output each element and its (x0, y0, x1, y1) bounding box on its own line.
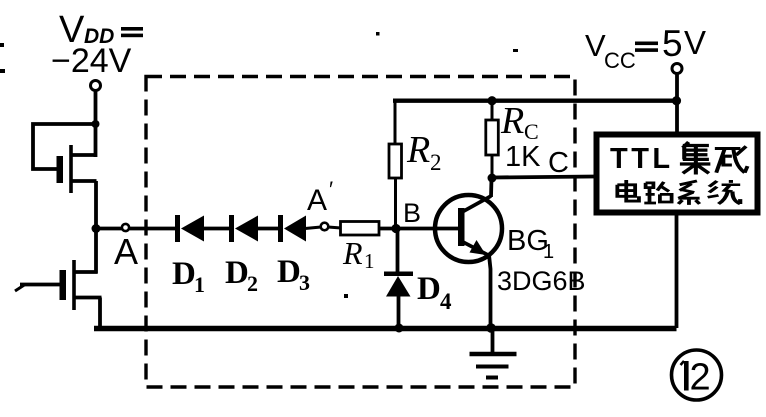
transistor BG1 (435, 195, 502, 262)
scan speck left edge upper (0, 43, 4, 47)
wire BG1 collector to node C (489, 178, 493, 197)
diode D2 (229, 215, 258, 242)
diode D3 (278, 215, 306, 242)
node A marker circle (122, 224, 129, 231)
label VDD = -24V (51, 9, 143, 80)
svg-text:B: B (403, 198, 421, 228)
svg-text:A: A (307, 184, 327, 217)
label D1 (172, 256, 205, 297)
glyph 成 (715, 146, 748, 172)
top rail wire VCC (393, 99, 677, 103)
junction D4 - bottom rail (395, 324, 404, 333)
resistor R1 (341, 222, 380, 236)
wire M1 source to node A (94, 181, 98, 230)
node C junction (488, 174, 497, 183)
wire node B to BG1 base (396, 227, 459, 231)
svg-text:3DG6B: 3DG6B (497, 266, 586, 296)
glyph 路 (644, 182, 671, 203)
svg-text:3: 3 (299, 270, 310, 295)
junction emitter - bottom rail (486, 323, 496, 333)
transistor M1 (MOS load) (57, 145, 97, 193)
svg-text:C: C (548, 147, 569, 179)
junction RC top (487, 96, 496, 105)
figure number 12 (672, 350, 722, 400)
svg-text:2: 2 (690, 357, 711, 399)
svg-text:′: ′ (329, 177, 333, 202)
svg-text:R: R (500, 100, 524, 142)
label D3 (277, 254, 310, 295)
wire VCC terminal to TTL box top (675, 74, 679, 133)
glyph 系 (678, 181, 699, 205)
svg-text:−24V: −24V (51, 42, 132, 80)
diode D4 (384, 229, 413, 329)
svg-text:CC: CC (604, 48, 636, 73)
TTL box U1 (597, 135, 758, 213)
label BG1 (507, 225, 554, 263)
wire TTL box bottom to rail (675, 213, 679, 328)
label RC (500, 100, 539, 144)
transistor M2 (MOS driver) (60, 260, 102, 310)
wire node A to M2 drain (94, 229, 98, 274)
svg-text:TTL: TTL (610, 143, 674, 175)
svg-text:1: 1 (364, 249, 375, 273)
wire A' to R1 (328, 227, 341, 228)
svg-text:1: 1 (543, 241, 554, 263)
resistor RC (486, 101, 499, 178)
bottom rail wire (94, 326, 677, 331)
scan speck right (513, 49, 518, 52)
wire M1 gate feedback loop (33, 124, 96, 169)
label R2 (406, 129, 442, 175)
svg-text:4: 4 (440, 289, 452, 314)
terminal VDD (91, 81, 101, 91)
dashed enclosure (146, 77, 575, 388)
glyph 电 (617, 180, 639, 201)
label D4 (417, 271, 452, 314)
node B junction (391, 224, 400, 233)
svg-text:2: 2 (430, 150, 442, 175)
junction M1 gate-drain (92, 120, 100, 128)
diode D1 (175, 215, 204, 242)
svg-text:V: V (684, 24, 706, 61)
wire M2 source to bottom rail (98, 298, 102, 329)
svg-text:1: 1 (194, 272, 205, 297)
node A' marker (321, 223, 329, 231)
junction VCC drop (672, 96, 681, 105)
wire D3 to node A' (305, 227, 321, 229)
svg-text:D: D (417, 271, 441, 307)
svg-text:R: R (406, 129, 430, 171)
wire M2 gate input (15, 285, 60, 292)
svg-text:A: A (114, 231, 138, 272)
label VCC = 5V (585, 23, 706, 73)
svg-text:V: V (585, 28, 606, 63)
ground (470, 328, 517, 378)
svg-text:D: D (225, 255, 249, 291)
svg-text:5: 5 (662, 23, 683, 64)
svg-text:2: 2 (247, 271, 258, 296)
label R1 (342, 235, 375, 273)
wire node A to D1 (96, 227, 176, 231)
glyph 集 (680, 142, 710, 174)
wire VDD terminal to M1 drain (94, 91, 98, 158)
scan speck below R1 (344, 294, 348, 298)
terminal VCC (672, 64, 682, 74)
svg-text:D: D (277, 254, 301, 290)
wire R1 to node B (379, 227, 397, 231)
wire node C to TTL box (492, 177, 594, 178)
wire D2 to D3 (257, 227, 279, 231)
wire D1 to D2 (203, 227, 230, 231)
label D2 (225, 255, 258, 296)
resistor R2 (389, 101, 402, 229)
node A junction (92, 224, 101, 233)
glyph 统 (708, 180, 741, 204)
svg-text:D: D (172, 256, 196, 292)
svg-text:R: R (342, 235, 363, 271)
wire BG1 emitter to bottom rail (489, 255, 491, 328)
scan speck left edge lower (0, 69, 5, 73)
svg-text:1K: 1K (505, 141, 541, 173)
scan speck top (376, 32, 380, 36)
label A' (307, 177, 333, 217)
